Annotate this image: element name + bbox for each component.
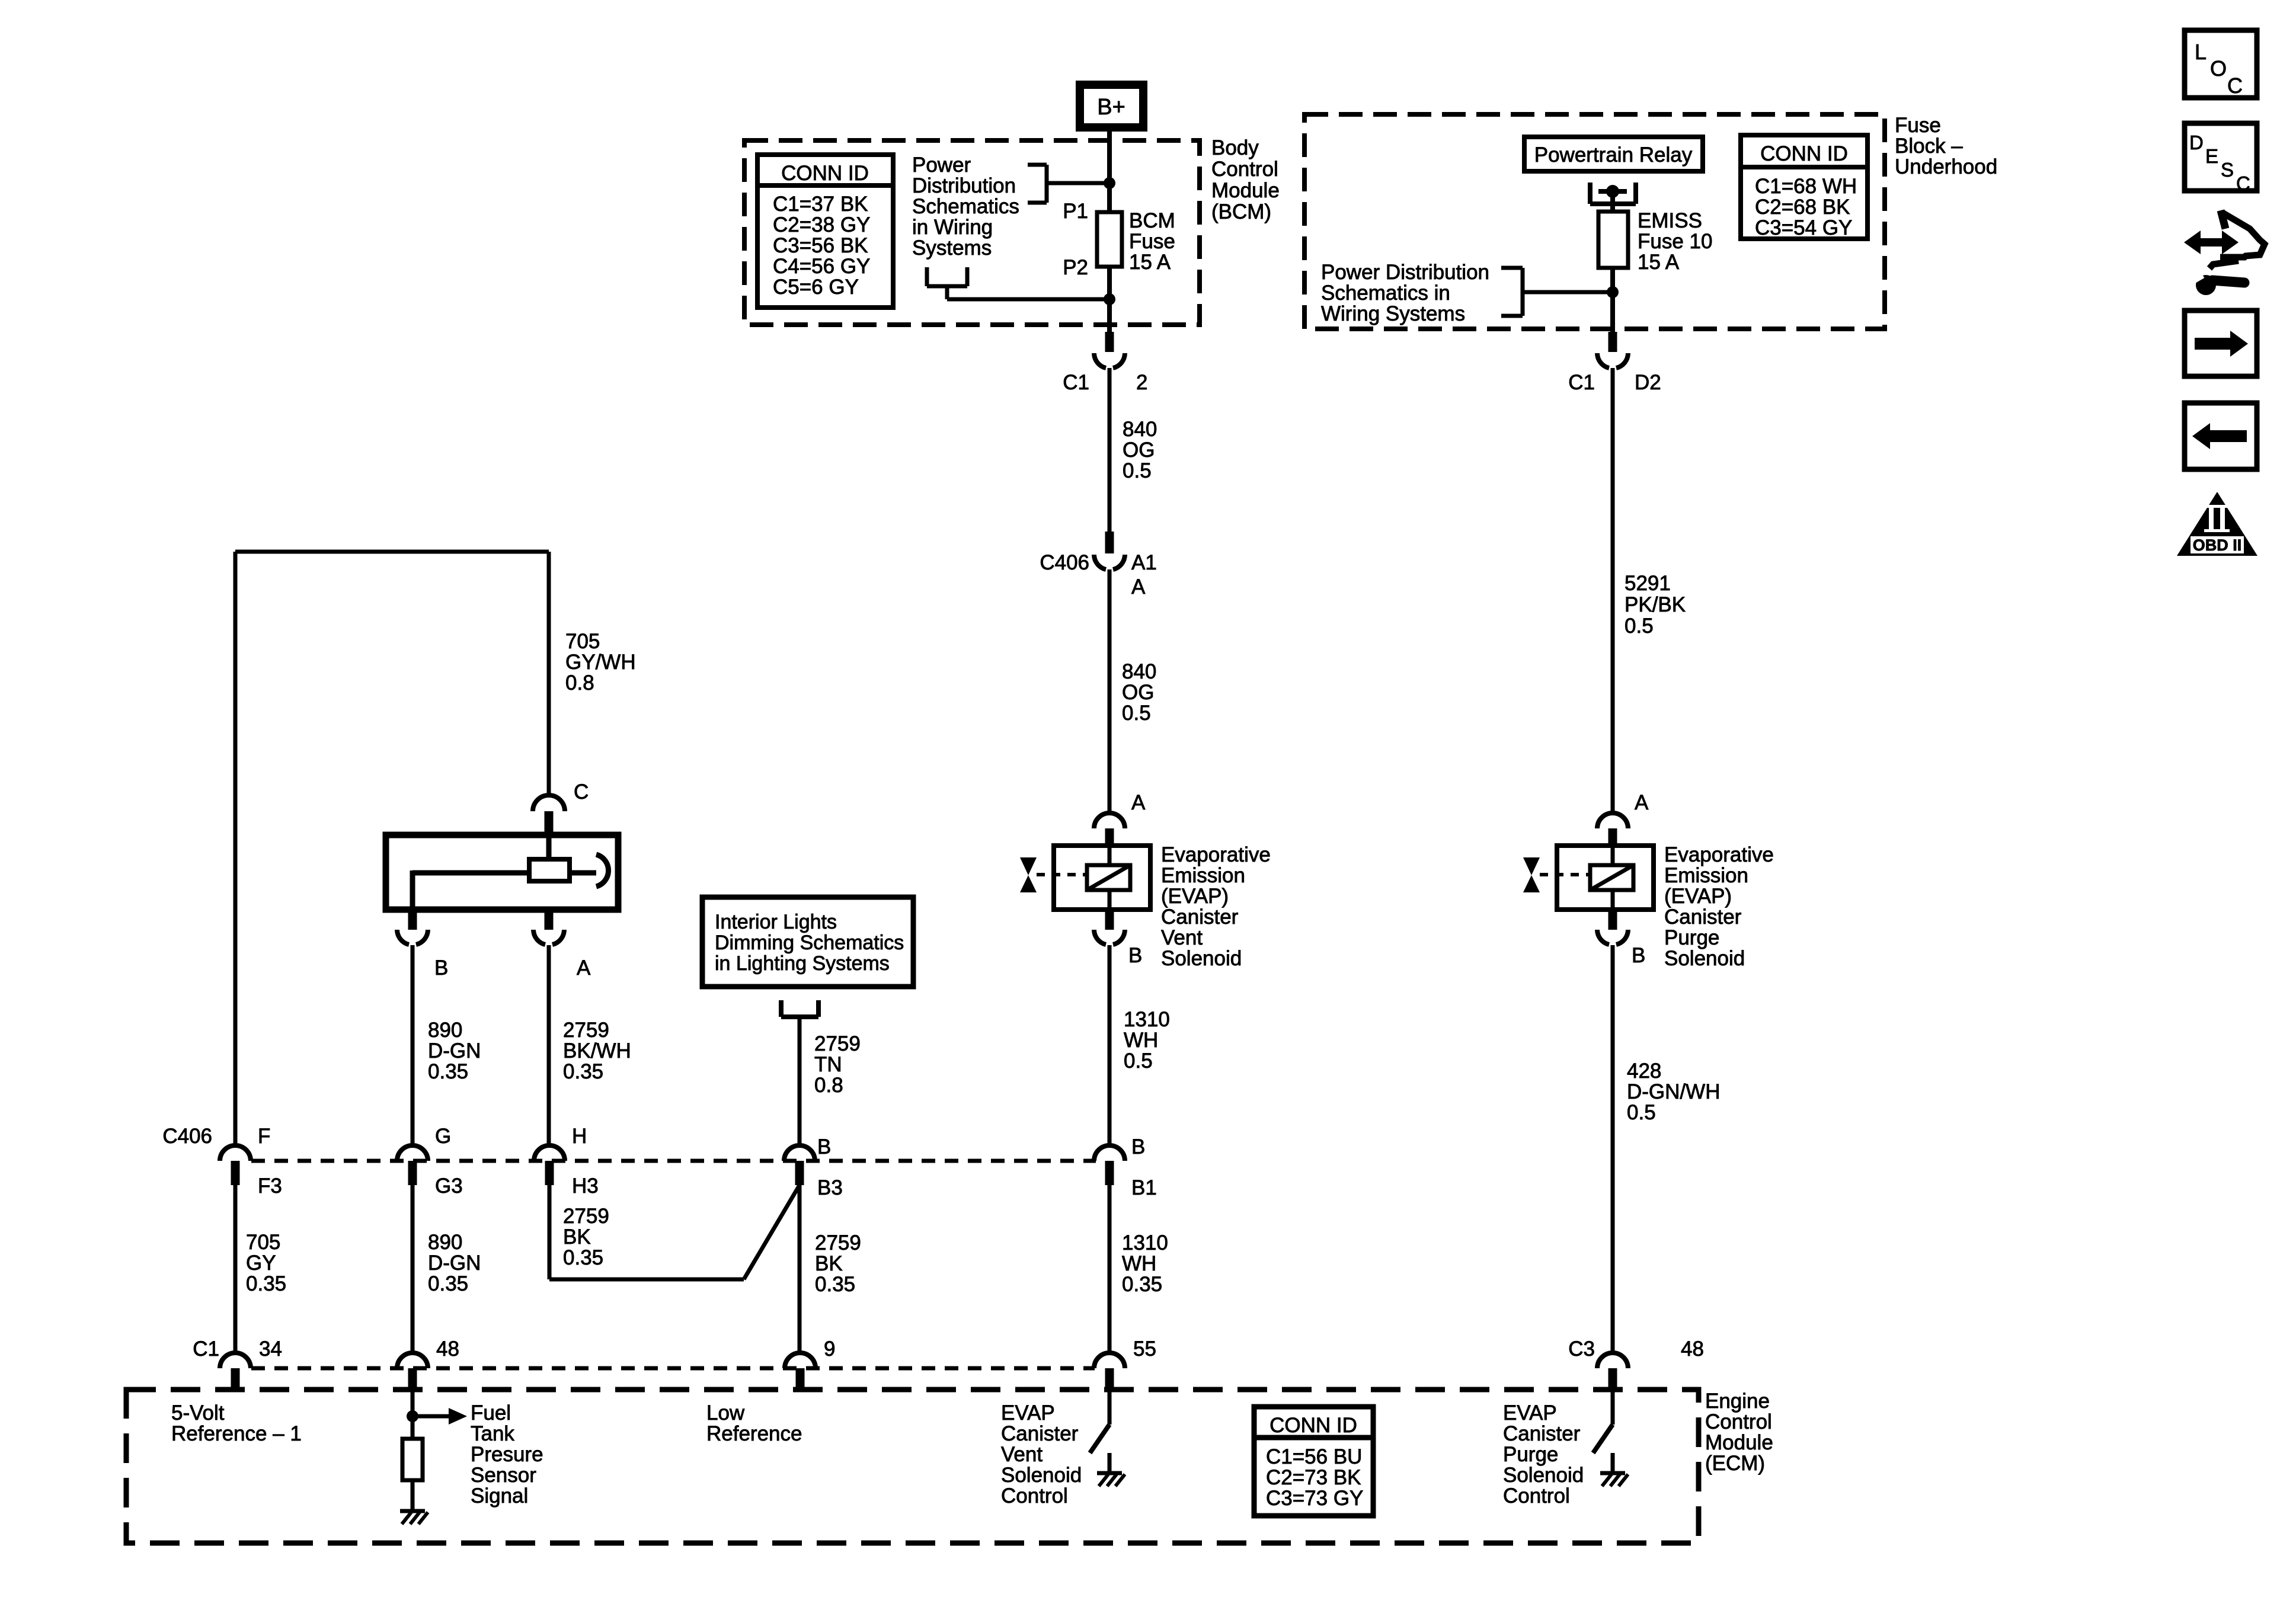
svg-text:BK: BK [815, 1252, 843, 1275]
svg-text:C1: C1 [1568, 371, 1595, 394]
svg-text:in Lighting Systems: in Lighting Systems [715, 952, 890, 975]
svg-text:(ECM): (ECM) [1705, 1452, 1765, 1475]
svg-text:C3=73 GY: C3=73 GY [1266, 1487, 1363, 1510]
svg-text:C1: C1 [193, 1337, 219, 1361]
svg-text:55: 55 [1133, 1337, 1156, 1361]
svg-text:Emission: Emission [1161, 864, 1245, 887]
svg-text:C1=68 WH: C1=68 WH [1755, 175, 1857, 198]
svg-text:0.35: 0.35 [815, 1273, 855, 1296]
svg-text:0.5: 0.5 [1122, 702, 1151, 725]
svg-text:E: E [2205, 145, 2218, 167]
svg-text:OG: OG [1123, 438, 1155, 462]
svg-text:WH: WH [1122, 1252, 1156, 1275]
svg-text:C2=38 GY: C2=38 GY [773, 213, 870, 236]
svg-text:A: A [1635, 791, 1649, 814]
svg-text:Signal: Signal [471, 1484, 528, 1507]
svg-text:Interior Lights: Interior Lights [715, 911, 837, 933]
svg-text:OG: OG [1122, 681, 1154, 704]
svg-text:Control: Control [1503, 1484, 1570, 1507]
svg-text:0.35: 0.35 [563, 1246, 603, 1269]
svg-text:840: 840 [1122, 660, 1156, 683]
svg-text:2759: 2759 [814, 1032, 861, 1055]
svg-text:Power: Power [912, 153, 971, 177]
svg-text:L: L [2195, 40, 2207, 64]
svg-text:C: C [574, 780, 589, 804]
svg-text:CONN ID: CONN ID [781, 162, 869, 185]
svg-text:Purge: Purge [1664, 926, 1719, 949]
svg-text:P2: P2 [1063, 256, 1088, 279]
svg-text:B: B [1131, 1135, 1145, 1158]
svg-text:Control: Control [1211, 158, 1278, 181]
svg-text:C406: C406 [1040, 551, 1089, 574]
svg-text:C: C [2227, 73, 2243, 98]
svg-text:BK: BK [563, 1225, 591, 1249]
svg-text:Vent: Vent [1161, 926, 1203, 949]
svg-text:H: H [572, 1125, 587, 1148]
svg-text:A: A [577, 956, 591, 980]
svg-text:Powertrain Relay: Powertrain Relay [1534, 143, 1693, 167]
svg-text:CONN ID: CONN ID [1760, 142, 1848, 165]
svg-text:Underhood: Underhood [1895, 155, 1997, 178]
svg-text:Fuse 10: Fuse 10 [1638, 230, 1712, 253]
svg-text:D2: D2 [1635, 371, 1661, 394]
svg-text:Canister: Canister [1001, 1422, 1079, 1445]
svg-text:2759: 2759 [563, 1205, 609, 1228]
svg-text:Systems: Systems [912, 236, 992, 260]
svg-text:B: B [817, 1135, 831, 1158]
svg-text:Solenoid: Solenoid [1001, 1464, 1082, 1487]
svg-text:890: 890 [428, 1019, 462, 1042]
svg-text:34: 34 [259, 1337, 282, 1361]
svg-text:C1=37 BK: C1=37 BK [773, 193, 868, 216]
svg-text:D-GN/WH: D-GN/WH [1627, 1080, 1720, 1103]
svg-text:(BCM): (BCM) [1211, 200, 1271, 223]
svg-text:Engine: Engine [1705, 1390, 1770, 1413]
svg-text:B+: B+ [1097, 95, 1125, 120]
svg-text:C3: C3 [1568, 1337, 1595, 1361]
svg-text:Power Distribution: Power Distribution [1321, 261, 1489, 284]
svg-text:WH: WH [1124, 1029, 1158, 1052]
svg-text:Evaporative: Evaporative [1161, 843, 1271, 866]
svg-text:5-Volt: 5-Volt [171, 1401, 225, 1425]
svg-text:C: C [2236, 172, 2250, 194]
svg-text:Body: Body [1211, 136, 1259, 159]
svg-text:15 A: 15 A [1129, 251, 1171, 274]
svg-text:Vent: Vent [1001, 1443, 1043, 1466]
svg-text:0.5: 0.5 [1124, 1049, 1153, 1073]
svg-text:0.8: 0.8 [814, 1074, 843, 1097]
svg-text:P1: P1 [1063, 200, 1088, 223]
svg-text:0.35: 0.35 [1122, 1273, 1162, 1296]
svg-text:(EVAP): (EVAP) [1161, 885, 1229, 908]
svg-text:Control: Control [1001, 1484, 1068, 1507]
svg-text:Canister: Canister [1664, 905, 1742, 929]
svg-text:OBD II: OBD II [2193, 536, 2242, 554]
svg-text:G3: G3 [435, 1174, 463, 1198]
svg-text:Distribution: Distribution [912, 174, 1016, 197]
svg-text:48: 48 [1681, 1337, 1704, 1361]
svg-text:B3: B3 [817, 1176, 843, 1199]
svg-text:C1: C1 [1063, 371, 1089, 394]
svg-text:EVAP: EVAP [1503, 1401, 1557, 1425]
svg-text:Presure: Presure [471, 1443, 543, 1466]
svg-text:BCM: BCM [1129, 209, 1175, 232]
svg-text:890: 890 [428, 1231, 462, 1254]
svg-text:5291: 5291 [1625, 572, 1671, 595]
svg-text:F: F [258, 1125, 270, 1148]
svg-text:705: 705 [565, 630, 600, 653]
svg-text:A: A [1131, 575, 1146, 598]
svg-text:Sensor: Sensor [471, 1464, 536, 1487]
svg-text:EVAP: EVAP [1001, 1401, 1055, 1425]
svg-text:Dimming Schematics: Dimming Schematics [715, 932, 904, 954]
svg-text:Solenoid: Solenoid [1161, 947, 1242, 970]
svg-text:S: S [2221, 159, 2234, 181]
svg-text:Canister: Canister [1161, 905, 1239, 929]
svg-text:Reference: Reference [706, 1422, 802, 1445]
svg-text:Low: Low [706, 1401, 745, 1425]
svg-text:GY/WH: GY/WH [565, 651, 636, 674]
svg-text:C2=68 BK: C2=68 BK [1755, 196, 1850, 219]
svg-text:C1=56 BU: C1=56 BU [1266, 1445, 1362, 1468]
svg-text:Emission: Emission [1664, 864, 1748, 887]
svg-text:in Wiring: in Wiring [912, 216, 993, 239]
svg-text:GY: GY [246, 1251, 276, 1275]
svg-text:A: A [1131, 791, 1146, 814]
svg-text:C2=73 BK: C2=73 BK [1266, 1466, 1361, 1489]
svg-text:O: O [2210, 56, 2227, 81]
svg-text:A1: A1 [1131, 551, 1157, 574]
svg-text:Solenoid: Solenoid [1503, 1464, 1584, 1487]
svg-text:C406: C406 [162, 1125, 212, 1148]
svg-text:15 A: 15 A [1638, 251, 1680, 274]
svg-text:428: 428 [1627, 1060, 1661, 1083]
svg-text:Fuel: Fuel [471, 1401, 511, 1425]
svg-text:Wiring Systems: Wiring Systems [1321, 302, 1465, 325]
svg-text:Schematics: Schematics [912, 195, 1019, 218]
svg-text:0.35: 0.35 [246, 1272, 286, 1295]
svg-text:0.5: 0.5 [1625, 614, 1654, 638]
svg-text:C5=6 GY: C5=6 GY [773, 276, 859, 299]
svg-text:TN: TN [814, 1053, 842, 1076]
svg-text:Control: Control [1705, 1410, 1772, 1433]
svg-text:PK/BK: PK/BK [1625, 593, 1686, 616]
svg-text:F3: F3 [258, 1174, 282, 1198]
svg-text:Canister: Canister [1503, 1422, 1581, 1445]
svg-text:1310: 1310 [1124, 1008, 1170, 1031]
svg-text:Solenoid: Solenoid [1664, 947, 1745, 970]
svg-text:0.35: 0.35 [428, 1272, 468, 1295]
svg-text:C3=56 BK: C3=56 BK [773, 234, 868, 257]
svg-text:2759: 2759 [815, 1231, 861, 1254]
svg-text:Module: Module [1211, 179, 1280, 202]
svg-text:0.35: 0.35 [428, 1060, 468, 1083]
svg-text:CONN ID: CONN ID [1269, 1414, 1357, 1437]
svg-text:0.8: 0.8 [565, 671, 594, 694]
svg-text:0.35: 0.35 [563, 1060, 603, 1083]
svg-text:0.5: 0.5 [1627, 1101, 1656, 1124]
svg-text:B1: B1 [1131, 1176, 1157, 1199]
svg-text:Fuse: Fuse [1129, 230, 1175, 253]
svg-text:B: B [1632, 944, 1645, 967]
svg-text:Block –: Block – [1895, 135, 1963, 158]
svg-text:Purge: Purge [1503, 1443, 1558, 1466]
svg-text:Reference – 1: Reference – 1 [171, 1422, 302, 1445]
svg-text:Fuse: Fuse [1895, 114, 1941, 137]
svg-text:Evaporative: Evaporative [1664, 843, 1774, 866]
svg-text:C3=54 GY: C3=54 GY [1755, 216, 1852, 239]
svg-text:48: 48 [436, 1337, 459, 1361]
svg-text:B: B [434, 956, 448, 980]
svg-text:Schematics in: Schematics in [1321, 281, 1450, 305]
svg-text:BK/WH: BK/WH [563, 1039, 631, 1062]
svg-text:C4=56 GY: C4=56 GY [773, 255, 870, 278]
svg-text:H3: H3 [572, 1174, 599, 1198]
svg-text:(EVAP): (EVAP) [1664, 885, 1732, 908]
svg-text:D-GN: D-GN [428, 1039, 481, 1062]
svg-text:EMISS: EMISS [1638, 209, 1702, 232]
svg-text:B: B [1128, 944, 1142, 967]
svg-text:Module: Module [1705, 1431, 1773, 1454]
svg-text:9: 9 [824, 1337, 835, 1361]
svg-text:1310: 1310 [1122, 1231, 1168, 1254]
svg-text:D-GN: D-GN [428, 1251, 481, 1275]
svg-text:840: 840 [1123, 418, 1157, 441]
svg-text:G: G [435, 1125, 451, 1148]
svg-text:2: 2 [1136, 371, 1147, 394]
svg-text:0.5: 0.5 [1123, 459, 1152, 482]
svg-text:2759: 2759 [563, 1019, 609, 1042]
svg-text:705: 705 [246, 1231, 280, 1254]
svg-text:Tank: Tank [471, 1422, 514, 1445]
svg-text:D: D [2189, 132, 2204, 153]
